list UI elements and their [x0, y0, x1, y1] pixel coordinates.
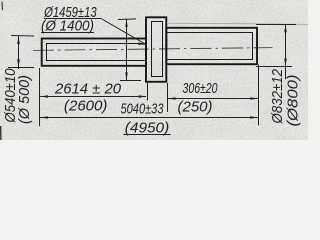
collar outer outline (blank Ø1459)	[146, 17, 166, 82]
svg-text:(2600): (2600)	[64, 97, 108, 114]
extension line right end (vertical)	[258, 65, 260, 126]
dimension Ø832: dimension line with arrows	[285, 25, 287, 80]
dimension 2614: dimension line with arrows	[40, 96, 146, 98]
dimension 5040: dimension line with arrows	[40, 117, 258, 119]
faint crease line over right journal	[168, 23, 308, 24]
extension line collar left face (vertical)	[147, 83, 149, 101]
right cylinder inner outline (finished Ø800)	[166, 33, 252, 60]
dimension Ø832: bottom extension line	[256, 66, 292, 68]
extension line collar right face (vertical)	[167, 83, 169, 112]
scan edge artifact top-left	[1, 2, 4, 11]
callout underline	[41, 32, 94, 34]
label (4950) underline	[123, 134, 170, 136]
callout shelf line	[44, 18, 101, 20]
collar inner outline (finished Ø1400)	[152, 22, 163, 77]
paper background	[0, 0, 308, 140]
svg-text:(Ø 500): (Ø 500)	[17, 75, 33, 124]
left cylinder outer outline (blank Ø540)	[42, 39, 146, 66]
svg-text:2614 ± 20: 2614 ± 20	[54, 80, 122, 97]
svg-text:306±20: 306±20	[183, 80, 218, 97]
left cylinder inner outline (finished Ø500)	[47, 44, 147, 61]
svg-text:Ø832±12: Ø832±12	[270, 69, 286, 124]
dimension Ø540: dimension line with arrows	[18, 36, 20, 69]
dimension Ø540: bottom extension line	[8, 67, 34, 69]
dimension Ø1459: bottom extension line	[120, 80, 141, 82]
svg-text:(Ø 1400): (Ø 1400)	[41, 17, 94, 34]
dimension Ø540: top extension line	[11, 35, 34, 38]
centerline	[33, 48, 273, 51]
svg-text:(Ø800): (Ø800)	[285, 75, 301, 127]
svg-text:5040±33: 5040±33	[121, 101, 164, 118]
extension line left end (vertical)	[39, 68, 41, 126]
svg-text:(4950): (4950)	[125, 119, 170, 136]
dimension Ø832: top extension line	[256, 24, 296, 26]
scan edge artifact bottom-left	[0, 126, 2, 140]
right cylinder outer outline (blank Ø832)	[166, 28, 257, 64]
svg-text:(250): (250)	[178, 98, 213, 115]
dimension Ø1459: dimension line with arrows	[126, 19, 128, 80]
callout leader diagonal to collar	[101, 19, 146, 45]
dimension Ø1459: top extension line	[118, 18, 136, 21]
dimension 306: dimension line with arrows	[168, 98, 258, 100]
